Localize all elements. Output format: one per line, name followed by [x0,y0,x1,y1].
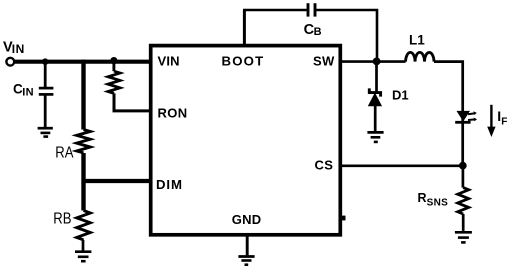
ground under D1 [367,132,383,142]
wire CIN bottom lead [44,96,47,128]
svg-text:D1: D1 [392,87,409,102]
wire BOOT to CB [243,9,307,12]
node SW junction [373,58,381,66]
wire D1 top lead [375,62,378,92]
wire DIM [84,179,152,183]
wire D1 bottom lead [374,106,377,131]
node CIN junction [42,58,49,65]
ground under RB [75,252,91,262]
ground under GND pin [238,257,254,265]
wire SW to L1 [342,60,406,63]
svg-text:RB: RB [53,211,71,228]
svg-text:RON: RON [158,106,188,121]
ground under RSNS [455,232,472,242]
svg-text:B: B [314,26,322,38]
svg-text:F: F [501,116,507,127]
resistor RA [77,130,91,153]
wire VIN rail [14,60,151,64]
wire RON top lead [112,61,115,72]
wire L1 to LED [434,62,463,166]
svg-text:L1: L1 [409,32,425,47]
inductor L1 [406,52,434,61]
terminal VIN [6,58,14,66]
resistor RON [108,71,120,93]
capacitor CIN [39,88,54,94]
node RON junction [110,57,117,64]
svg-text:RA: RA [55,145,73,162]
wire GND pin stem [246,235,249,256]
resistor RSNS [458,188,469,214]
label IF [497,108,507,127]
capacitor CB [308,3,315,16]
svg-text:GND: GND [232,212,261,227]
svg-text:SW: SW [313,53,335,68]
svg-text:IN: IN [12,42,25,56]
wire RSNS bottom lead [462,214,465,231]
wire RA branch upper [81,60,85,130]
resistor RB [77,211,91,240]
svg-text:R: R [418,191,427,205]
wire RSNS top lead [462,166,465,188]
label CIN [13,81,34,98]
svg-text:DIM: DIM [156,177,183,192]
LED [455,111,477,122]
wire CIN top lead [44,62,47,87]
label RSNS [418,191,449,208]
diode D1 (schottky) [369,88,382,105]
wire CB to SW node [316,10,377,62]
op-amp U1 IC body [151,46,341,235]
arrow IF [487,105,495,137]
wire BOOT vertical [243,10,246,46]
node CS junction [459,162,467,170]
svg-text:VIN: VIN [158,53,180,68]
wire RA to DIM node [81,153,85,211]
svg-text:SNS: SNS [427,197,448,208]
wire RB bottom lead [82,240,85,251]
svg-text:CS: CS [315,157,334,172]
label CB [304,22,322,38]
svg-text:BOOT: BOOT [222,53,265,68]
pin stub right edge [341,216,346,221]
wire RON bottom lead [114,93,151,111]
label VIN source [3,40,25,56]
svg-text:IN: IN [22,86,34,98]
ground under CIN [38,128,53,136]
wire CS [342,165,463,168]
